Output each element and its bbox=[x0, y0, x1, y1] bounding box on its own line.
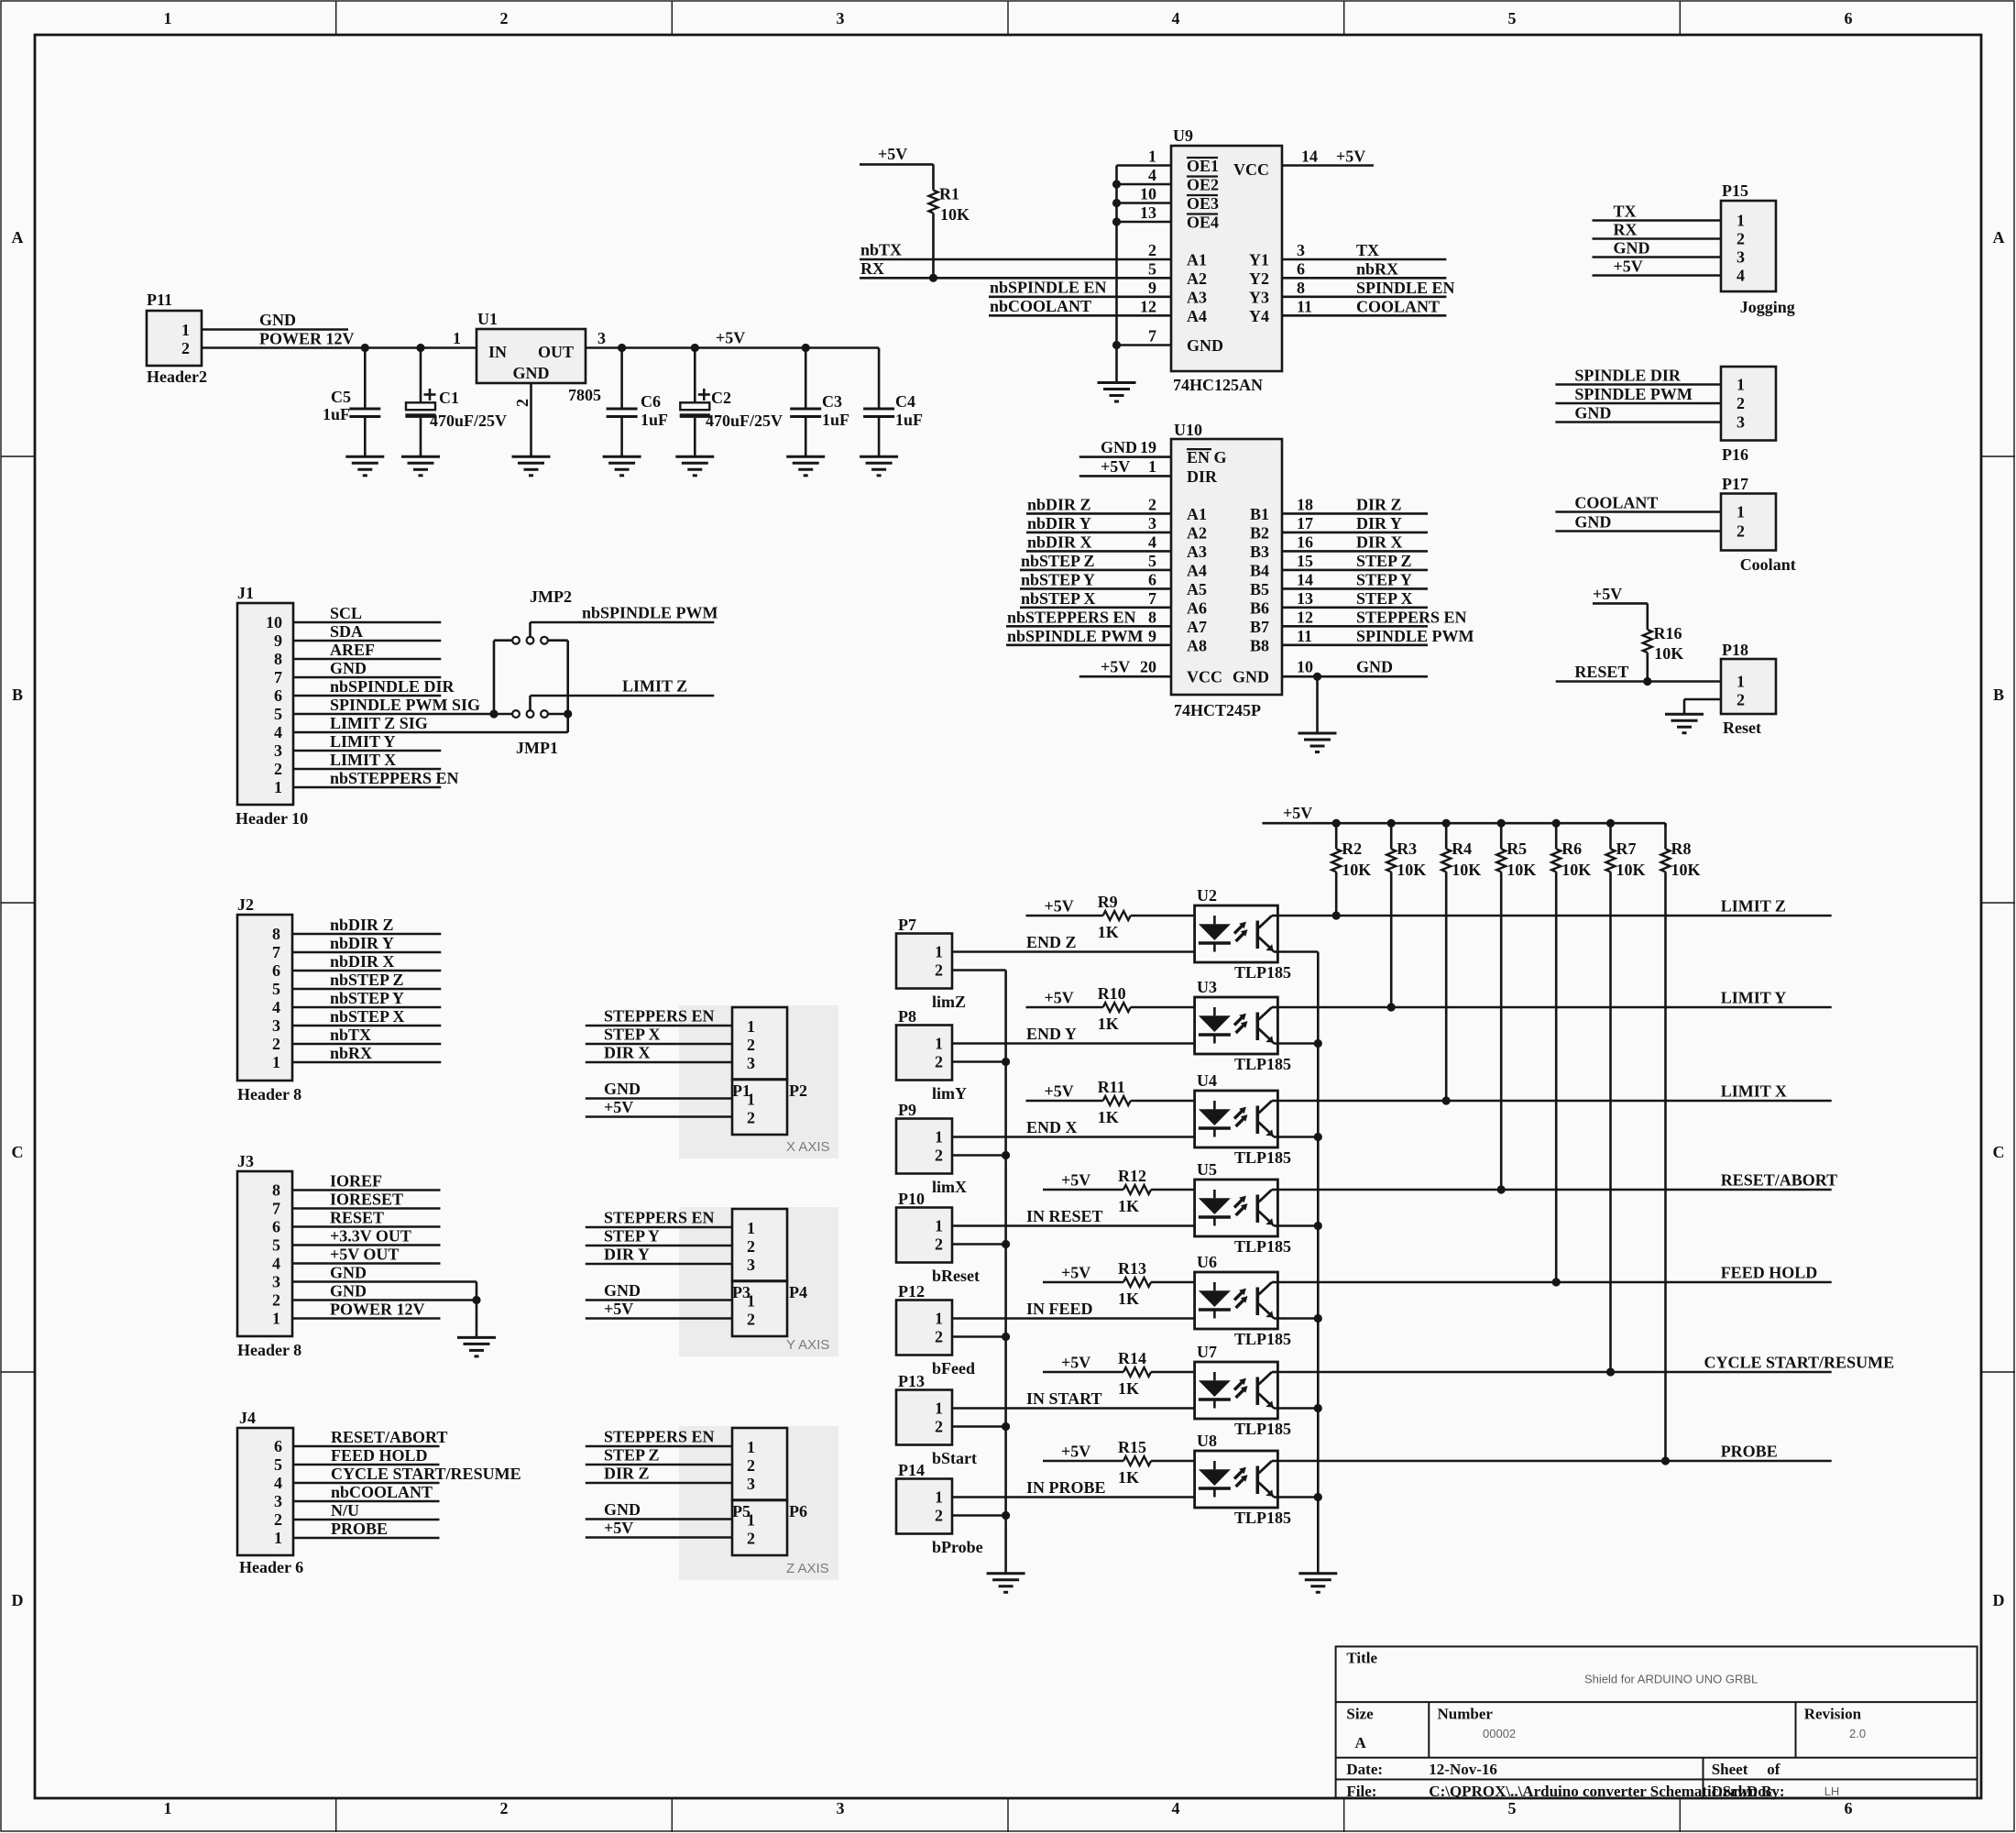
svg-text:VCC: VCC bbox=[1187, 668, 1222, 686]
U8 phototransistor bbox=[1256, 1466, 1260, 1495]
U10 pin 19 EN wire GND bbox=[1079, 456, 1171, 458]
svg-text:1K: 1K bbox=[1098, 1015, 1119, 1033]
svg-text:2: 2 bbox=[935, 1147, 943, 1165]
svg-text:1K: 1K bbox=[1118, 1290, 1139, 1308]
svg-text:Y AXIS: Y AXIS bbox=[786, 1337, 829, 1353]
svg-text:TLP185: TLP185 bbox=[1234, 1420, 1291, 1438]
svg-text:FEED HOLD: FEED HOLD bbox=[1721, 1264, 1818, 1282]
svg-text:4: 4 bbox=[1172, 9, 1180, 27]
wire U10 pin 7 nbSTEP X bbox=[1020, 606, 1171, 609]
title block bbox=[1336, 1647, 1978, 1798]
optocoupler U4 TLP185 bbox=[1195, 1091, 1278, 1147]
svg-text:1: 1 bbox=[747, 1091, 755, 1109]
U5 LED bbox=[1213, 1190, 1216, 1198]
resistor R4 10K bbox=[1442, 819, 1451, 828]
svg-text:IN START: IN START bbox=[1026, 1389, 1102, 1408]
wire J4 pin 6 RESET/ABORT bbox=[293, 1445, 440, 1448]
svg-text:nbSTEP X: nbSTEP X bbox=[330, 1007, 405, 1026]
svg-text:TLP185: TLP185 bbox=[1234, 1148, 1291, 1167]
svg-text:3: 3 bbox=[1297, 241, 1305, 259]
ground bus buttons bbox=[1004, 971, 1007, 1574]
svg-text:STEP Z: STEP Z bbox=[1356, 552, 1412, 570]
svg-text:Y4: Y4 bbox=[1249, 307, 1269, 325]
svg-text:C3: C3 bbox=[822, 392, 842, 411]
svg-text:2: 2 bbox=[747, 1530, 755, 1548]
svg-text:JMP2: JMP2 bbox=[530, 587, 572, 606]
svg-text:PROBE: PROBE bbox=[331, 1520, 388, 1538]
junction R3 output bbox=[1387, 1003, 1396, 1011]
junction R5 output bbox=[1497, 1185, 1506, 1193]
svg-text:nbRX: nbRX bbox=[1356, 259, 1398, 278]
resistor R5 10K bbox=[1497, 819, 1506, 828]
svg-text:470uF/25V: 470uF/25V bbox=[430, 412, 507, 430]
svg-text:6: 6 bbox=[272, 1218, 280, 1236]
wire JMP2 center to nbSPINDLE PWM bbox=[529, 622, 531, 637]
svg-text:5: 5 bbox=[1148, 552, 1156, 570]
svg-text:8: 8 bbox=[274, 650, 282, 668]
svg-text:A8: A8 bbox=[1187, 636, 1207, 654]
svg-text:2: 2 bbox=[935, 1235, 943, 1254]
svg-text:GND: GND bbox=[1574, 513, 1611, 532]
svg-text:1K: 1K bbox=[1118, 1468, 1139, 1487]
junction R4 output bbox=[1442, 1096, 1451, 1104]
svg-text:3: 3 bbox=[272, 1273, 280, 1291]
wire U8 emitter bbox=[1277, 1496, 1318, 1498]
svg-text:6: 6 bbox=[274, 686, 282, 705]
group X AXIS background bbox=[679, 1005, 838, 1158]
svg-text:B4: B4 bbox=[1250, 561, 1269, 579]
svg-text:A3: A3 bbox=[1187, 543, 1207, 561]
svg-text:RESET/ABORT: RESET/ABORT bbox=[1721, 1171, 1837, 1190]
svg-text:10K: 10K bbox=[1561, 861, 1591, 879]
svg-text:P2: P2 bbox=[789, 1081, 807, 1100]
wire J4 pin 2 N/U bbox=[293, 1519, 440, 1521]
svg-text:1: 1 bbox=[747, 1292, 755, 1311]
wire RX net bbox=[860, 277, 1171, 280]
svg-text:11: 11 bbox=[1297, 627, 1312, 645]
ground optocouplers bbox=[1298, 1574, 1337, 1593]
svg-text:Y3: Y3 bbox=[1249, 288, 1269, 306]
svg-text:4: 4 bbox=[1148, 532, 1156, 551]
svg-text:C5: C5 bbox=[331, 388, 351, 406]
wire P13 pin1 IN START bbox=[952, 1407, 1195, 1410]
ground J3 bbox=[457, 1337, 496, 1356]
connector P10 bReset bbox=[896, 1208, 952, 1263]
svg-text:+5V OUT: +5V OUT bbox=[330, 1246, 399, 1264]
svg-text:5: 5 bbox=[272, 980, 280, 998]
ground buttons bbox=[987, 1574, 1025, 1593]
wire +5V rail from U1 OUT bbox=[586, 346, 879, 349]
junction node C5 bbox=[361, 344, 369, 352]
svg-text:COOLANT: COOLANT bbox=[1574, 494, 1658, 512]
junction J3 GND bbox=[472, 1296, 480, 1304]
svg-text:POWER 12V: POWER 12V bbox=[259, 330, 355, 348]
svg-text:J1: J1 bbox=[237, 584, 254, 602]
svg-text:14: 14 bbox=[1301, 148, 1318, 166]
svg-text:+5V: +5V bbox=[1593, 585, 1622, 603]
resistor R15 1K on +5V bbox=[1043, 1460, 1123, 1463]
svg-text:8: 8 bbox=[1148, 608, 1156, 626]
svg-text:nbSTEP Z: nbSTEP Z bbox=[1021, 552, 1095, 570]
optocoupler U5 TLP185 bbox=[1195, 1180, 1278, 1236]
wire J3 GND down bbox=[476, 1282, 478, 1338]
wire U10 pin 9 nbSPINDLE PWM bbox=[1006, 643, 1171, 646]
svg-text:limZ: limZ bbox=[932, 993, 966, 1011]
svg-text:17: 17 bbox=[1297, 514, 1313, 532]
wire P18 pin2 ground bbox=[1684, 698, 1721, 701]
svg-text:1: 1 bbox=[747, 1511, 755, 1530]
svg-text:1uF: 1uF bbox=[323, 405, 350, 423]
svg-text:R16: R16 bbox=[1654, 624, 1682, 642]
svg-text:GND: GND bbox=[330, 1282, 367, 1301]
wire J1 pin 2 LIMIT X bbox=[293, 768, 441, 771]
transceiver U10 74HCT245P bbox=[1171, 439, 1282, 695]
resistor R3 10K bbox=[1387, 819, 1396, 828]
wire P3 pin 3 DIR Y bbox=[586, 1263, 732, 1266]
svg-text:+5V: +5V bbox=[878, 145, 907, 163]
wire P10 pin2 to ground bus bbox=[952, 1243, 1006, 1246]
wire U4 emitter bbox=[1277, 1136, 1318, 1138]
resistor R14 1K on +5V bbox=[1043, 1371, 1123, 1374]
svg-text:COOLANT: COOLANT bbox=[1356, 297, 1440, 315]
svg-text:C: C bbox=[12, 1143, 24, 1161]
svg-text:Shield for ARDUINO UNO GRBL: Shield for ARDUINO UNO GRBL bbox=[1584, 1673, 1758, 1686]
wire P12 pin2 to ground bus bbox=[952, 1335, 1006, 1338]
resistor R2 10K bbox=[1332, 819, 1341, 828]
junction node C1 bbox=[416, 344, 424, 352]
svg-text:5: 5 bbox=[274, 705, 282, 723]
svg-text:bReset: bReset bbox=[932, 1267, 980, 1285]
wire U3 collector LIMIT Y bbox=[1277, 1006, 1831, 1009]
svg-text:P16: P16 bbox=[1722, 445, 1748, 464]
svg-text:3: 3 bbox=[1737, 248, 1745, 267]
svg-text:10: 10 bbox=[1297, 658, 1313, 676]
wire U10 pin 2 nbDIR Z bbox=[1026, 512, 1171, 515]
optocoupler U8 TLP185 bbox=[1195, 1451, 1278, 1508]
wire U9 pin 8 SPINDLE EN bbox=[1282, 295, 1446, 298]
svg-text:P9: P9 bbox=[898, 1101, 916, 1119]
svg-text:+5V: +5V bbox=[1045, 989, 1074, 1007]
U10 pin 1 DIR wire +5V bbox=[1079, 475, 1171, 477]
svg-text:7805: 7805 bbox=[568, 386, 601, 404]
svg-text:B6: B6 bbox=[1250, 598, 1269, 617]
svg-text:END X: END X bbox=[1026, 1118, 1078, 1136]
wire J1 pin 3 LIMIT Y bbox=[293, 750, 441, 752]
svg-text:+5V: +5V bbox=[716, 329, 745, 347]
svg-text:U2: U2 bbox=[1197, 886, 1217, 905]
svg-text:DIR Y: DIR Y bbox=[604, 1246, 650, 1264]
svg-text:U9: U9 bbox=[1173, 126, 1193, 145]
wire P2 pin 2 +5V bbox=[586, 1115, 732, 1118]
svg-text:+5V: +5V bbox=[604, 1098, 633, 1116]
svg-text:1: 1 bbox=[1148, 148, 1156, 166]
connector P4 (Y axis power) bbox=[732, 1281, 787, 1336]
wire LIMIT Z SIG vertical bbox=[566, 641, 569, 732]
svg-text:3: 3 bbox=[837, 9, 845, 27]
svg-text:Y2: Y2 bbox=[1249, 269, 1269, 288]
resistor R16 10K bbox=[1647, 623, 1649, 630]
svg-text:2: 2 bbox=[1737, 230, 1745, 248]
svg-text:1: 1 bbox=[274, 778, 282, 796]
junction ground bus bbox=[1002, 1333, 1010, 1341]
wire U10 pin 11 SPINDLE PWM bbox=[1282, 643, 1428, 646]
wire J3 pin 2 GND bbox=[292, 1299, 477, 1301]
wire U5 collector RESET/ABORT bbox=[1277, 1189, 1831, 1191]
wire RESET net bbox=[1556, 680, 1721, 683]
connector P17 Coolant bbox=[1721, 494, 1776, 551]
svg-text:P10: P10 bbox=[898, 1190, 925, 1208]
svg-text:B7: B7 bbox=[1250, 618, 1269, 636]
svg-text:1: 1 bbox=[935, 1035, 943, 1053]
svg-text:6: 6 bbox=[1297, 259, 1305, 278]
svg-text:B3: B3 bbox=[1250, 543, 1269, 561]
svg-text:bStart: bStart bbox=[932, 1449, 977, 1467]
svg-text:2: 2 bbox=[1148, 241, 1156, 259]
svg-text:END Y: END Y bbox=[1026, 1025, 1077, 1043]
svg-text:U5: U5 bbox=[1197, 1160, 1217, 1179]
resistor R11 1K on +5V bbox=[1026, 1100, 1103, 1103]
svg-text:2: 2 bbox=[1737, 691, 1745, 709]
junction emitter bus bbox=[1314, 1314, 1322, 1323]
wire J3 pin 1 POWER 12V bbox=[292, 1317, 441, 1320]
svg-text:limY: limY bbox=[932, 1084, 967, 1103]
svg-text:SPINDLE EN: SPINDLE EN bbox=[1356, 279, 1455, 297]
connector J1 Header 10 bbox=[237, 603, 293, 805]
svg-text:A5: A5 bbox=[1187, 580, 1207, 598]
svg-text:3: 3 bbox=[1737, 413, 1745, 432]
resistor R12 1K on +5V bbox=[1043, 1189, 1123, 1191]
connector P14 bProbe bbox=[896, 1479, 952, 1534]
svg-text:A6: A6 bbox=[1187, 598, 1207, 617]
capacitor C5 1uF bbox=[364, 348, 367, 410]
wire P2 pin 1 GND bbox=[586, 1097, 732, 1100]
svg-text:IN FEED: IN FEED bbox=[1026, 1300, 1093, 1318]
svg-text:5: 5 bbox=[1508, 9, 1517, 27]
svg-text:R6: R6 bbox=[1561, 840, 1582, 858]
wire J2 pin 2 nbTX bbox=[292, 1043, 441, 1046]
svg-text:+5V: +5V bbox=[1336, 148, 1365, 166]
U5 phototransistor bbox=[1256, 1195, 1260, 1224]
svg-text:GND: GND bbox=[1101, 438, 1137, 456]
svg-text:SPINDLE PWM: SPINDLE PWM bbox=[1356, 627, 1474, 645]
svg-text:TLP185: TLP185 bbox=[1234, 1330, 1291, 1348]
svg-text:nbDIR X: nbDIR X bbox=[330, 952, 395, 971]
wire P11 pin1 GND stub bbox=[202, 328, 348, 331]
svg-text:RESET/ABORT: RESET/ABORT bbox=[331, 1428, 447, 1446]
svg-text:10: 10 bbox=[1140, 185, 1156, 203]
svg-text:5: 5 bbox=[1148, 259, 1156, 278]
wire J3 pin 5 +3.3V OUT bbox=[292, 1244, 441, 1246]
svg-text:TLP185: TLP185 bbox=[1234, 1055, 1291, 1073]
svg-text:limX: limX bbox=[932, 1178, 967, 1196]
svg-text:TLP185: TLP185 bbox=[1234, 1509, 1291, 1527]
junction emitter bus bbox=[1314, 1133, 1322, 1141]
capacitor C1 470uF/25V bbox=[420, 348, 422, 403]
svg-text:470uF/25V: 470uF/25V bbox=[706, 412, 783, 430]
svg-text:4: 4 bbox=[1737, 267, 1745, 285]
svg-text:3: 3 bbox=[272, 1016, 280, 1035]
junction node C6 bbox=[618, 344, 626, 352]
svg-text:3: 3 bbox=[747, 1054, 755, 1072]
svg-text:Reset: Reset bbox=[1723, 719, 1761, 737]
svg-text:7: 7 bbox=[1148, 327, 1156, 346]
svg-text:4: 4 bbox=[274, 723, 282, 741]
svg-text:3: 3 bbox=[837, 1799, 845, 1817]
junction J1 pin5 JMP2 branch bbox=[489, 709, 498, 718]
wire J4 pin 4 CYCLE START/RESUME bbox=[293, 1482, 440, 1485]
svg-text:Size: Size bbox=[1346, 1706, 1374, 1723]
svg-text:GND: GND bbox=[1233, 668, 1269, 686]
svg-text:7: 7 bbox=[274, 668, 282, 686]
svg-text:3: 3 bbox=[597, 329, 606, 347]
svg-text:U1: U1 bbox=[477, 310, 498, 328]
svg-text:2: 2 bbox=[935, 1328, 943, 1346]
junction U9 OE3 bbox=[1112, 199, 1121, 207]
optocoupler U6 TLP185 bbox=[1195, 1272, 1278, 1329]
resistor R10 1K on +5V bbox=[1026, 1006, 1103, 1009]
wire J1 pin 9 SDA bbox=[293, 640, 441, 642]
svg-text:1: 1 bbox=[453, 329, 461, 347]
power rail +5V for R1 bbox=[860, 163, 934, 166]
svg-text:Date:: Date: bbox=[1346, 1761, 1383, 1778]
junction node C2 bbox=[691, 344, 699, 352]
junction R2 output bbox=[1332, 911, 1341, 919]
U6 phototransistor bbox=[1256, 1288, 1260, 1316]
svg-text:7: 7 bbox=[272, 1200, 280, 1218]
svg-text:2: 2 bbox=[500, 1799, 509, 1817]
wire JMP1 center to LIMIT Z bbox=[529, 696, 531, 710]
wire J4 pin 1 PROBE bbox=[293, 1537, 440, 1540]
svg-text:STEPPERS EN: STEPPERS EN bbox=[1356, 608, 1467, 626]
svg-text:1: 1 bbox=[747, 1438, 755, 1456]
svg-text:2: 2 bbox=[1737, 522, 1745, 541]
svg-text:B5: B5 bbox=[1250, 580, 1269, 598]
svg-text:7: 7 bbox=[272, 943, 280, 961]
svg-text:2: 2 bbox=[747, 1237, 755, 1256]
wire P8 pin2 to ground bus bbox=[952, 1060, 1006, 1063]
svg-text:10K: 10K bbox=[1616, 861, 1646, 879]
svg-text:OE4: OE4 bbox=[1187, 214, 1219, 232]
svg-text:R5: R5 bbox=[1507, 840, 1527, 858]
svg-text:GND: GND bbox=[1187, 336, 1223, 355]
junction JMP1 right bbox=[564, 709, 572, 718]
wire J1 pin 10 SCL bbox=[293, 621, 441, 624]
svg-text:4: 4 bbox=[274, 1474, 282, 1492]
svg-text:20: 20 bbox=[1140, 658, 1156, 676]
wire P15 pin 2 RX bbox=[1593, 237, 1722, 240]
wire U10 pin 15 STEP Z bbox=[1282, 569, 1428, 572]
svg-text:U6: U6 bbox=[1197, 1253, 1217, 1271]
svg-text:14: 14 bbox=[1297, 570, 1313, 588]
svg-text:6: 6 bbox=[1845, 1799, 1853, 1817]
svg-text:GND: GND bbox=[1574, 404, 1611, 423]
svg-text:2: 2 bbox=[1737, 394, 1745, 412]
svg-text:DIR X: DIR X bbox=[1356, 532, 1403, 551]
svg-text:15: 15 bbox=[1297, 552, 1313, 570]
wire P16 pin 1 SPINDLE DIR bbox=[1555, 383, 1721, 386]
svg-text:R7: R7 bbox=[1616, 840, 1637, 858]
U4 LED bbox=[1213, 1101, 1216, 1109]
svg-text:IORESET: IORESET bbox=[330, 1191, 403, 1209]
svg-text:nbCOOLANT: nbCOOLANT bbox=[990, 297, 1091, 315]
svg-text:10K: 10K bbox=[1342, 861, 1371, 879]
junction U9 OE2 bbox=[1112, 180, 1121, 188]
junction ground bus bbox=[1002, 1151, 1010, 1159]
svg-text:GND: GND bbox=[1356, 658, 1393, 676]
svg-text:4: 4 bbox=[272, 1255, 280, 1273]
svg-text:nbTX: nbTX bbox=[860, 241, 902, 259]
svg-text:J4: J4 bbox=[239, 1409, 256, 1427]
svg-text:nbDIR X: nbDIR X bbox=[1027, 532, 1092, 551]
svg-text:LIMIT X: LIMIT X bbox=[330, 751, 396, 769]
svg-text:Header 8: Header 8 bbox=[237, 1085, 301, 1103]
svg-text:D: D bbox=[12, 1591, 24, 1609]
svg-text:SDA: SDA bbox=[330, 622, 363, 641]
svg-text:6: 6 bbox=[1148, 570, 1156, 588]
resistor R8 10K bbox=[1664, 823, 1667, 828]
svg-text:1: 1 bbox=[164, 1799, 172, 1817]
svg-text:DIR Z: DIR Z bbox=[604, 1465, 650, 1483]
wire J1 pin 5 SPINDLE PWM SIG bbox=[293, 713, 512, 716]
wire J1 pin 8 AREF bbox=[293, 658, 441, 661]
wire U10 pin 5 nbSTEP Z bbox=[1020, 569, 1171, 572]
U8 light arrows bbox=[1234, 1470, 1244, 1479]
svg-text:2: 2 bbox=[747, 1036, 755, 1054]
svg-text:nbSPINDLE PWM: nbSPINDLE PWM bbox=[1007, 627, 1144, 645]
U6 LED bbox=[1213, 1282, 1216, 1290]
svg-text:+5V: +5V bbox=[1061, 1171, 1090, 1190]
svg-text:STEP Z: STEP Z bbox=[604, 1446, 660, 1465]
svg-text:2: 2 bbox=[272, 1291, 280, 1310]
svg-text:C6: C6 bbox=[641, 392, 661, 411]
svg-text:+5V: +5V bbox=[1045, 1082, 1074, 1101]
svg-text:B: B bbox=[1993, 686, 2004, 704]
svg-text:C4: C4 bbox=[895, 392, 915, 411]
svg-text:1uF: 1uF bbox=[641, 411, 668, 429]
ground P18 bbox=[1665, 714, 1704, 733]
svg-text:RX: RX bbox=[860, 259, 884, 278]
svg-text:STEPPERS EN: STEPPERS EN bbox=[604, 1209, 715, 1227]
svg-text:P11: P11 bbox=[147, 291, 172, 309]
svg-text:GND: GND bbox=[604, 1080, 641, 1098]
svg-text:JMP1: JMP1 bbox=[516, 739, 558, 757]
svg-text:LIMIT Z: LIMIT Z bbox=[1721, 897, 1786, 916]
wire JMP1 right stub bbox=[548, 713, 568, 716]
wire U10 pin 3 nbDIR Y bbox=[1026, 532, 1171, 534]
svg-text:nbSTEPPERS EN: nbSTEPPERS EN bbox=[330, 769, 459, 787]
svg-text:bProbe: bProbe bbox=[932, 1538, 983, 1556]
wire J1 pin 6 nbSPINDLE DIR bbox=[293, 695, 441, 697]
svg-text:nbSTEP Y: nbSTEP Y bbox=[1021, 570, 1095, 588]
svg-text:bFeed: bFeed bbox=[932, 1359, 975, 1377]
U5 light arrows bbox=[1234, 1199, 1244, 1208]
svg-text:R4: R4 bbox=[1452, 840, 1472, 858]
svg-text:AREF: AREF bbox=[330, 641, 375, 659]
connector P1 (X axis signals) bbox=[732, 1007, 787, 1080]
svg-text:1: 1 bbox=[1737, 212, 1745, 230]
wire JMP2 left branch bbox=[493, 641, 496, 714]
svg-text:1: 1 bbox=[1737, 503, 1745, 521]
connector P2 (X axis power) bbox=[732, 1080, 787, 1135]
svg-text:U3: U3 bbox=[1197, 978, 1217, 996]
wire U10 pin 4 nbDIR X bbox=[1026, 550, 1171, 553]
capacitor C2 470uF/25V bbox=[694, 348, 696, 403]
svg-text:16: 16 bbox=[1297, 532, 1313, 551]
svg-text:GND: GND bbox=[604, 1500, 641, 1519]
svg-text:LIMIT X: LIMIT X bbox=[1721, 1082, 1787, 1101]
buffer U9 74HC125AN bbox=[1171, 146, 1282, 371]
svg-text:RESET: RESET bbox=[1574, 663, 1628, 681]
